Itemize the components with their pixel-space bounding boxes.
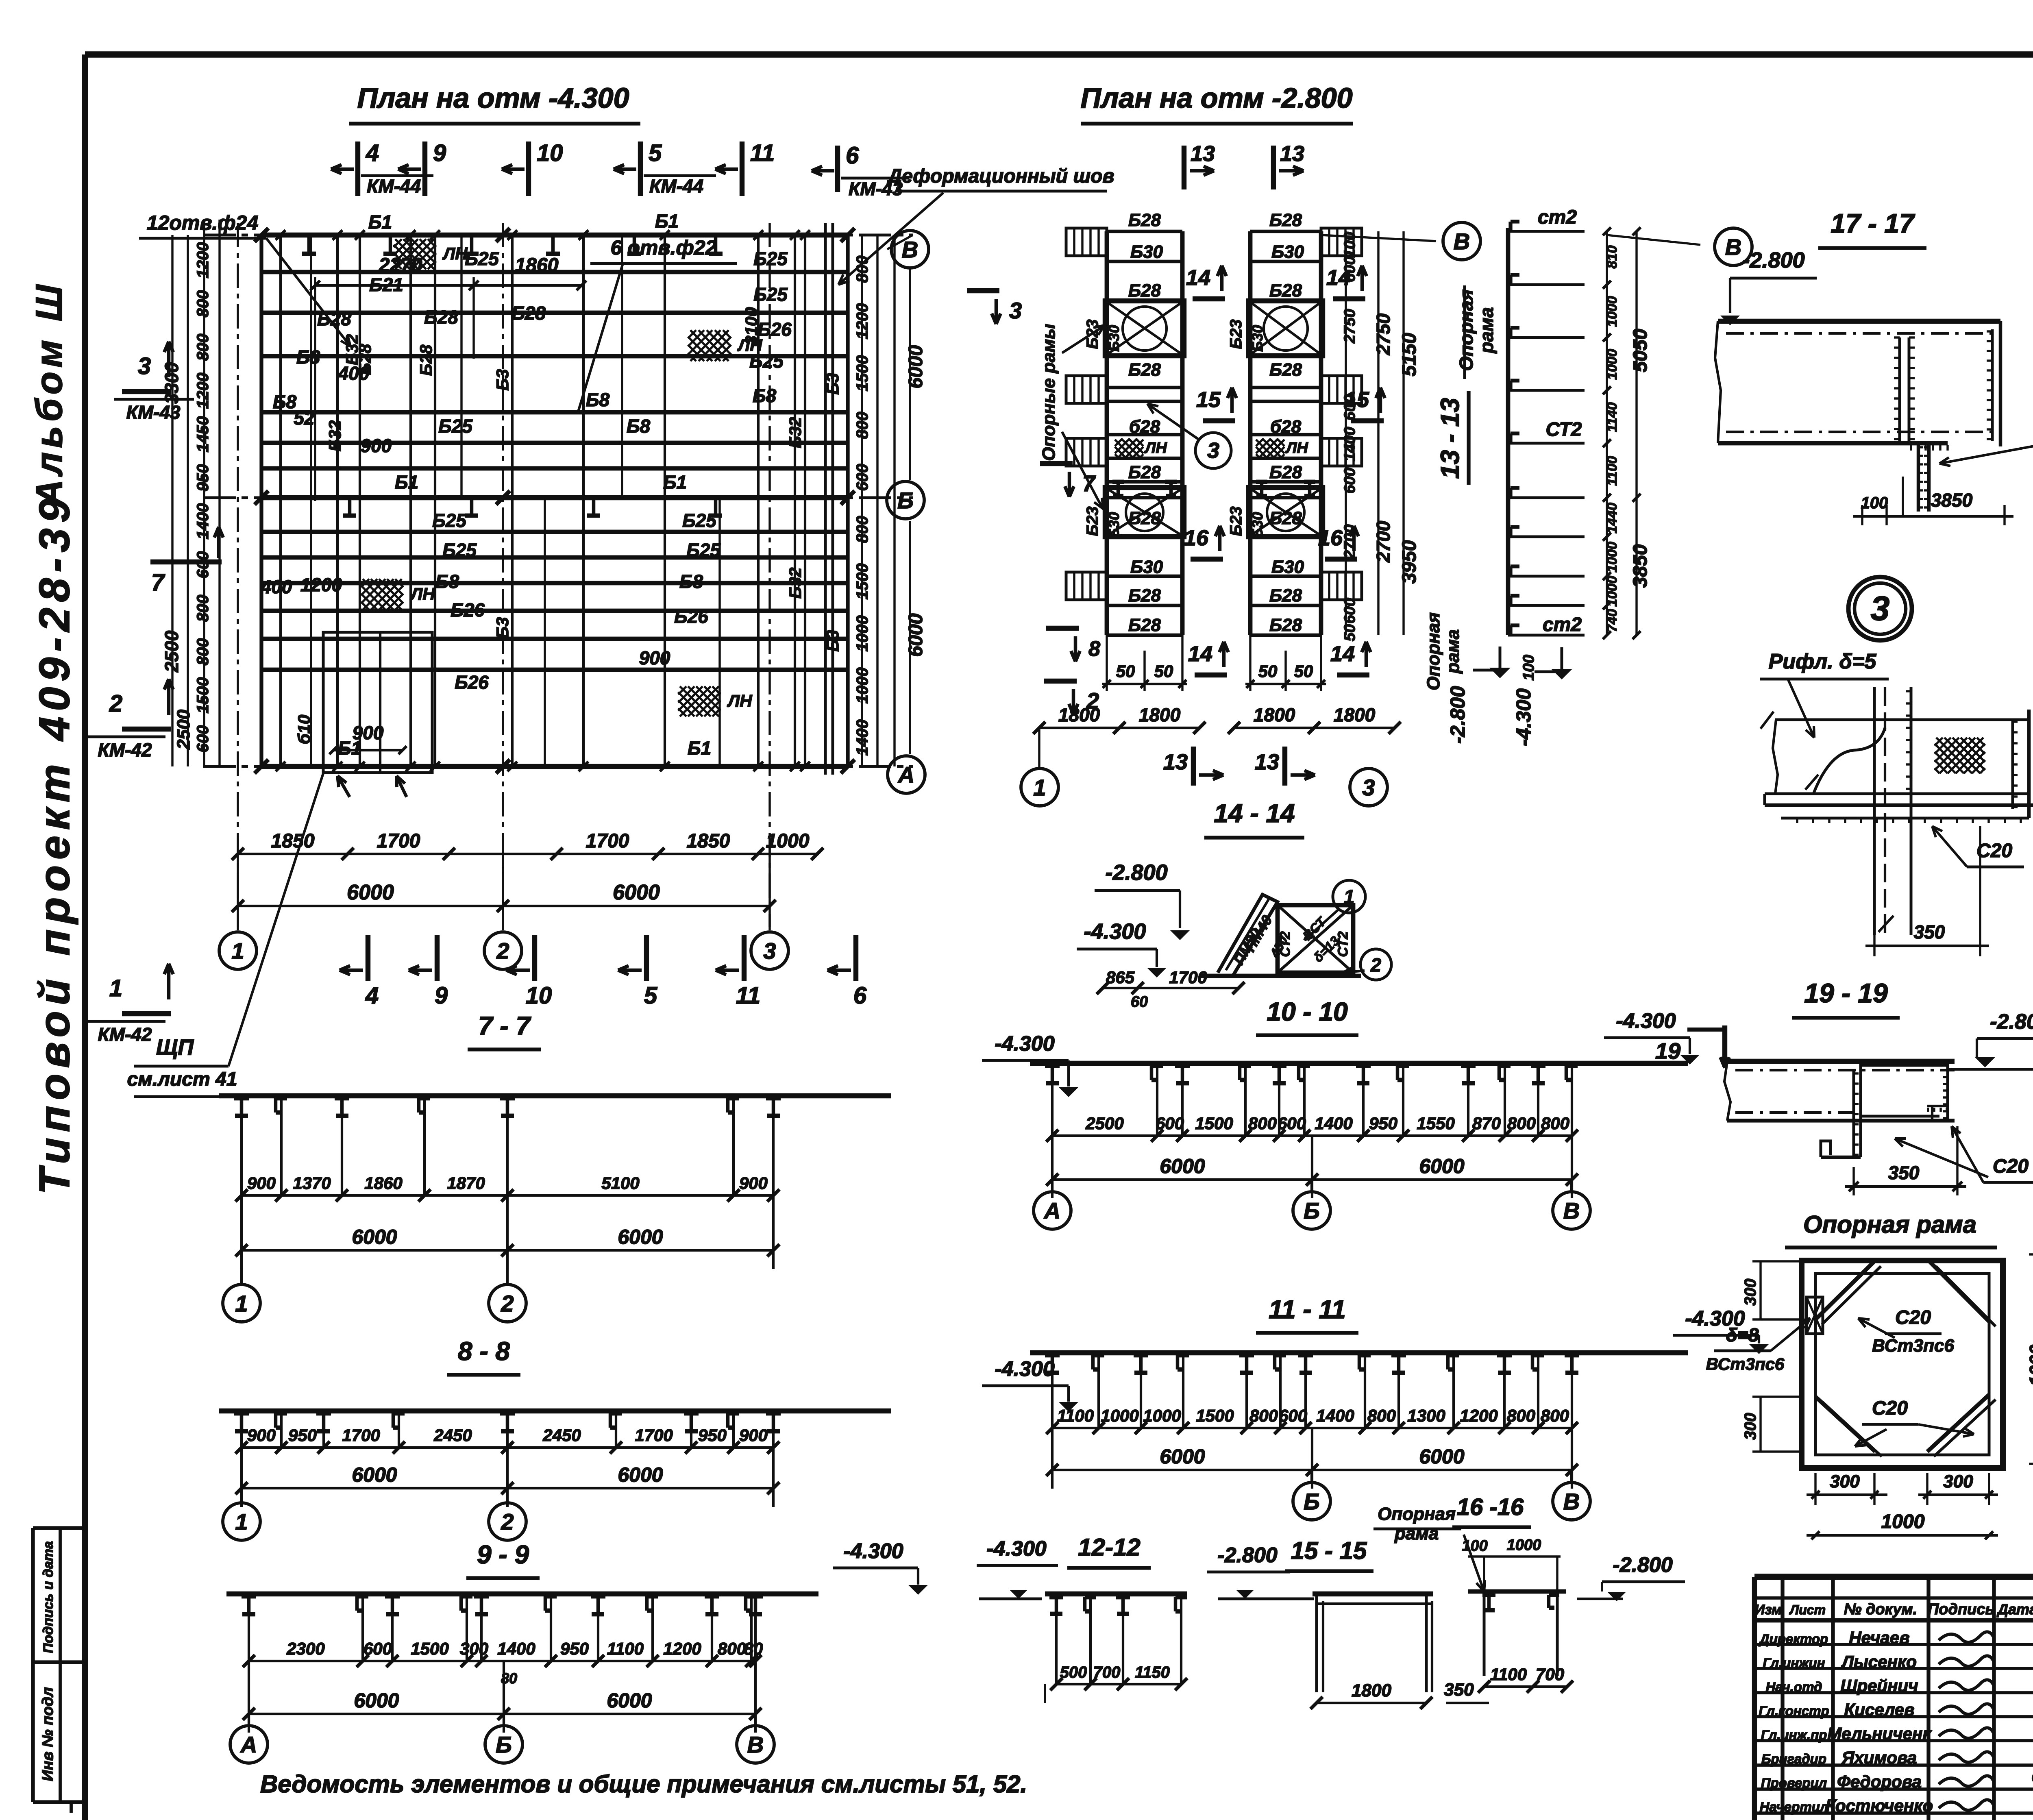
svg-text:ЛН: ЛН bbox=[1144, 440, 1167, 457]
svg-text:Киселев: Киселев bbox=[1844, 1700, 1914, 1719]
svg-text:Б1: Б1 bbox=[688, 738, 711, 759]
svg-text:1800: 1800 bbox=[1139, 704, 1181, 725]
svg-text:В: В bbox=[747, 1732, 764, 1757]
svg-text:б10: б10 bbox=[294, 715, 313, 745]
svg-text:Б28: Б28 bbox=[1128, 210, 1161, 230]
svg-text:800: 800 bbox=[194, 595, 212, 622]
svg-text:800: 800 bbox=[1249, 1406, 1278, 1425]
svg-text:3: 3 bbox=[1207, 438, 1219, 463]
svg-text:Подпись: Подпись bbox=[1928, 1601, 1994, 1618]
svg-text:КМ-44: КМ-44 bbox=[367, 176, 421, 197]
svg-text:10 - 10: 10 - 10 bbox=[1267, 997, 1347, 1026]
svg-text:Б3: Б3 bbox=[823, 630, 842, 651]
svg-text:Б26: Б26 bbox=[757, 319, 792, 340]
svg-text:Б23: Б23 bbox=[1084, 507, 1101, 536]
svg-text:б28: б28 bbox=[1270, 417, 1302, 437]
svg-text:Инв № подл: Инв № подл bbox=[39, 1687, 57, 1781]
svg-text:1850: 1850 bbox=[271, 830, 315, 852]
svg-text:Б30: Б30 bbox=[1271, 557, 1304, 577]
svg-text:950: 950 bbox=[560, 1639, 589, 1658]
svg-text:СТ2: СТ2 bbox=[1278, 931, 1293, 957]
svg-text:В: В bbox=[902, 237, 918, 262]
svg-text:Б8: Б8 bbox=[753, 385, 777, 406]
svg-text:3850: 3850 bbox=[1630, 544, 1651, 588]
svg-text:Гл.инжин: Гл.инжин bbox=[1763, 1655, 1825, 1670]
svg-text:Опорная: Опорная bbox=[1378, 1504, 1456, 1524]
svg-text:13 - 13: 13 - 13 bbox=[1435, 398, 1465, 479]
svg-text:-2.800: -2.800 bbox=[1446, 686, 1469, 744]
svg-text:КМ-44: КМ-44 bbox=[649, 176, 703, 197]
svg-text:1550: 1550 bbox=[1417, 1114, 1454, 1133]
svg-text:6000: 6000 bbox=[352, 1226, 397, 1248]
svg-text:6000: 6000 bbox=[352, 1463, 397, 1486]
svg-text:13: 13 bbox=[1163, 750, 1188, 774]
svg-text:В: В bbox=[1454, 229, 1470, 254]
svg-text:4: 4 bbox=[366, 140, 379, 166]
svg-text:-4.300: -4.300 bbox=[995, 1032, 1055, 1056]
svg-text:Б23: Б23 bbox=[1227, 320, 1245, 349]
svg-text:Б28: Б28 bbox=[1269, 586, 1302, 605]
svg-text:400: 400 bbox=[261, 576, 292, 597]
svg-text:С20: С20 bbox=[1993, 1156, 2029, 1177]
svg-text:600: 600 bbox=[364, 1639, 392, 1658]
svg-text:В: В bbox=[1725, 234, 1741, 260]
svg-text:Б26: Б26 bbox=[451, 599, 485, 620]
svg-text:3850: 3850 bbox=[1931, 490, 1973, 511]
svg-text:3: 3 bbox=[1009, 298, 1022, 323]
svg-text:1500: 1500 bbox=[853, 564, 871, 600]
svg-text:1000: 1000 bbox=[1604, 349, 1620, 380]
svg-text:1000: 1000 bbox=[1881, 1511, 1925, 1533]
svg-text:5050: 5050 bbox=[1630, 329, 1651, 372]
svg-text:Нечаев: Нечаев bbox=[1849, 1628, 1909, 1647]
svg-text:600: 600 bbox=[1341, 468, 1358, 493]
svg-text:11: 11 bbox=[736, 982, 760, 1009]
svg-text:ЛН: ЛН bbox=[442, 244, 468, 263]
svg-text:13: 13 bbox=[1280, 142, 1304, 166]
svg-text:А: А bbox=[1043, 1198, 1060, 1223]
svg-text:Б30: Б30 bbox=[1249, 325, 1266, 352]
svg-text:ст2: ст2 bbox=[1543, 614, 1582, 636]
svg-text:5: 5 bbox=[649, 140, 662, 166]
svg-text:1200: 1200 bbox=[853, 303, 871, 340]
svg-text:Типовой проект 409-28-39: Типовой проект 409-28-39 bbox=[30, 493, 78, 1194]
svg-text:1200: 1200 bbox=[194, 373, 212, 409]
svg-text:Б28: Б28 bbox=[424, 307, 458, 328]
svg-text:300: 300 bbox=[1943, 1472, 1973, 1491]
svg-text:6: 6 bbox=[853, 982, 867, 1009]
svg-text:900: 900 bbox=[353, 722, 384, 743]
svg-text:16 -16: 16 -16 bbox=[1457, 1494, 1524, 1520]
svg-text:Б25: Б25 bbox=[432, 510, 467, 531]
svg-text:600: 600 bbox=[1341, 598, 1358, 623]
svg-text:Шрейнич: Шрейнич bbox=[1840, 1676, 1918, 1695]
svg-text:900: 900 bbox=[247, 1173, 276, 1193]
svg-text:Б25: Б25 bbox=[442, 540, 477, 561]
svg-text:19 - 19: 19 - 19 bbox=[1804, 978, 1888, 1008]
svg-text:16: 16 bbox=[1184, 526, 1209, 550]
svg-text:100: 100 bbox=[1861, 494, 1888, 512]
svg-text:Изм: Изм bbox=[1755, 1602, 1782, 1618]
svg-text:950: 950 bbox=[288, 1426, 317, 1445]
svg-text:600: 600 bbox=[853, 464, 871, 491]
svg-text:2: 2 bbox=[501, 1509, 514, 1535]
svg-text:1400: 1400 bbox=[194, 503, 212, 540]
svg-text:6000: 6000 bbox=[618, 1226, 663, 1248]
svg-text:1700: 1700 bbox=[635, 1426, 673, 1445]
svg-text:13: 13 bbox=[1191, 142, 1215, 166]
svg-text:14: 14 bbox=[1188, 642, 1212, 666]
svg-text:Б25: Б25 bbox=[682, 510, 717, 531]
svg-text:52: 52 bbox=[294, 407, 315, 429]
svg-text:800: 800 bbox=[194, 638, 212, 666]
svg-text:Б28: Б28 bbox=[355, 344, 374, 375]
svg-text:810: 810 bbox=[1604, 246, 1620, 269]
svg-text:12-12: 12-12 bbox=[1078, 1534, 1140, 1561]
svg-text:Мельниченк: Мельниченк bbox=[1827, 1724, 1932, 1743]
svg-text:1: 1 bbox=[231, 938, 244, 964]
svg-text:6000: 6000 bbox=[1160, 1445, 1205, 1468]
svg-text:600: 600 bbox=[1341, 394, 1358, 420]
svg-text:Рифл. δ=5: Рифл. δ=5 bbox=[1769, 650, 1877, 673]
svg-text:-4.300: -4.300 bbox=[995, 1357, 1055, 1381]
svg-text:В: В bbox=[1563, 1198, 1580, 1223]
svg-text:800: 800 bbox=[1367, 1406, 1396, 1425]
svg-text:-4.300: -4.300 bbox=[843, 1539, 903, 1563]
svg-text:3: 3 bbox=[1362, 775, 1375, 800]
svg-text:15 - 15: 15 - 15 bbox=[1291, 1537, 1367, 1564]
svg-text:1100: 1100 bbox=[1057, 1406, 1094, 1425]
svg-text:1700: 1700 bbox=[377, 830, 420, 852]
svg-text:1800: 1800 bbox=[1352, 1681, 1391, 1700]
svg-text:1500: 1500 bbox=[1195, 1114, 1233, 1133]
svg-text:1400: 1400 bbox=[853, 720, 871, 756]
svg-text:60: 60 bbox=[1131, 993, 1148, 1010]
svg-text:1450: 1450 bbox=[194, 416, 212, 453]
svg-text:Б: Б bbox=[1304, 1489, 1320, 1514]
svg-text:-4.300: -4.300 bbox=[1084, 919, 1146, 944]
svg-text:рама: рама bbox=[1394, 1524, 1439, 1544]
svg-text:800: 800 bbox=[1541, 1114, 1569, 1133]
svg-text:16: 16 bbox=[1318, 526, 1343, 550]
svg-text:2300: 2300 bbox=[286, 1639, 324, 1658]
svg-text:для варианта выдачи бетон-: для варианта выдачи бетон- bbox=[2031, 1764, 2033, 1787]
svg-text:-4.300: -4.300 bbox=[1512, 688, 1535, 746]
svg-text:Б1: Б1 bbox=[655, 211, 679, 232]
svg-text:Б3: Б3 bbox=[493, 617, 512, 638]
svg-text:3: 3 bbox=[763, 938, 776, 964]
svg-text:700: 700 bbox=[1093, 1663, 1121, 1681]
svg-text:ЛН: ЛН bbox=[1285, 440, 1308, 457]
svg-text:Б8: Б8 bbox=[679, 571, 703, 592]
svg-text:1500: 1500 bbox=[194, 677, 212, 714]
svg-text:Лист: Лист bbox=[1789, 1602, 1826, 1617]
svg-text:2: 2 bbox=[109, 690, 122, 717]
svg-text:-4.300: -4.300 bbox=[986, 1537, 1047, 1561]
svg-text:С20: С20 bbox=[1895, 1307, 1931, 1328]
svg-text:50: 50 bbox=[1258, 662, 1278, 681]
svg-text:План на отм -2.800: План на отм -2.800 bbox=[1081, 82, 1353, 114]
svg-text:Б: Б bbox=[1304, 1198, 1320, 1223]
svg-text:6000: 6000 bbox=[905, 345, 927, 388]
svg-text:6000: 6000 bbox=[607, 1689, 652, 1712]
svg-text:14: 14 bbox=[1330, 642, 1355, 666]
svg-text:11: 11 bbox=[750, 140, 775, 166]
svg-text:Б8: Б8 bbox=[627, 416, 651, 437]
svg-text:1000: 1000 bbox=[853, 616, 871, 652]
svg-text:Б30: Б30 bbox=[1249, 512, 1266, 539]
svg-text:10: 10 bbox=[526, 982, 552, 1009]
svg-text:6000: 6000 bbox=[613, 881, 660, 904]
svg-text:600: 600 bbox=[194, 725, 212, 753]
svg-text:рама: рама bbox=[1443, 629, 1463, 674]
svg-text:12отв.ф24: 12отв.ф24 bbox=[147, 211, 259, 234]
svg-text:Б28: Б28 bbox=[416, 344, 435, 376]
svg-text:1200: 1200 bbox=[663, 1639, 701, 1658]
svg-text:19: 19 bbox=[1655, 1038, 1680, 1064]
svg-text:1000: 1000 bbox=[1604, 542, 1620, 573]
svg-text:Б25: Б25 bbox=[686, 540, 721, 561]
svg-text:1000: 1000 bbox=[766, 830, 810, 852]
svg-text:800: 800 bbox=[718, 1639, 746, 1658]
svg-text:1200: 1200 bbox=[1460, 1406, 1498, 1425]
svg-text:865: 865 bbox=[1106, 968, 1135, 987]
svg-text:11 - 11: 11 - 11 bbox=[1269, 1295, 1346, 1324]
svg-text:Подпись и дата: Подпись и дата bbox=[41, 1541, 56, 1653]
svg-text:800: 800 bbox=[1541, 1406, 1569, 1425]
svg-text:Б1: Б1 bbox=[663, 472, 687, 493]
svg-text:ЛН: ЛН bbox=[409, 584, 435, 603]
svg-text:Опорная рама: Опорная рама bbox=[1803, 1211, 1976, 1238]
svg-text:Гл.констр: Гл.констр bbox=[1759, 1703, 1829, 1718]
svg-text:Б28: Б28 bbox=[1269, 615, 1302, 635]
svg-text:2500: 2500 bbox=[161, 630, 182, 673]
svg-text:Б30: Б30 bbox=[1130, 557, 1163, 577]
svg-text:Б1: Б1 bbox=[368, 211, 392, 233]
svg-text:Дата: Дата bbox=[1996, 1601, 2033, 1618]
svg-text:600: 600 bbox=[1278, 1114, 1306, 1133]
svg-text:1870: 1870 bbox=[447, 1173, 485, 1193]
svg-text:Бригадир: Бригадир bbox=[1761, 1751, 1826, 1766]
svg-text:800: 800 bbox=[1507, 1406, 1535, 1425]
svg-text:1000: 1000 bbox=[1507, 1537, 1541, 1554]
svg-text:2: 2 bbox=[501, 1291, 514, 1316]
svg-text:Б28: Б28 bbox=[1269, 210, 1302, 230]
svg-text:-2.800: -2.800 bbox=[1613, 1553, 1673, 1577]
svg-text:870: 870 bbox=[1472, 1114, 1501, 1133]
svg-text:Б1: Б1 bbox=[395, 472, 418, 493]
svg-text:1850: 1850 bbox=[687, 830, 730, 852]
svg-text:3300: 3300 bbox=[161, 362, 182, 404]
svg-text:Б28: Б28 bbox=[512, 303, 546, 324]
svg-text:ст2: ст2 bbox=[1538, 207, 1577, 228]
svg-text:14 - 14: 14 - 14 bbox=[1214, 799, 1295, 828]
svg-text:1440: 1440 bbox=[1604, 503, 1620, 533]
svg-text:50: 50 bbox=[1294, 662, 1313, 681]
svg-text:900: 900 bbox=[361, 435, 392, 456]
svg-text:А: А bbox=[897, 762, 914, 788]
svg-text:1500: 1500 bbox=[411, 1639, 448, 1658]
svg-text:Б32: Б32 bbox=[786, 417, 805, 448]
svg-text:Б30: Б30 bbox=[1130, 242, 1163, 262]
svg-text:С20: С20 bbox=[1872, 1398, 1908, 1419]
svg-text:6000: 6000 bbox=[1160, 1155, 1205, 1178]
svg-text:1400: 1400 bbox=[1315, 1114, 1352, 1133]
svg-text:1000: 1000 bbox=[1143, 1406, 1181, 1425]
svg-text:1000: 1000 bbox=[1604, 576, 1620, 607]
svg-text:Б8: Б8 bbox=[435, 571, 459, 592]
svg-text:Б26: Б26 bbox=[674, 606, 708, 627]
svg-text:1: 1 bbox=[1033, 775, 1046, 800]
svg-text:1000: 1000 bbox=[1101, 1406, 1138, 1425]
svg-text:4: 4 bbox=[365, 982, 379, 1009]
svg-text:14: 14 bbox=[1186, 266, 1210, 290]
svg-text:-4.300: -4.300 bbox=[1616, 1009, 1676, 1033]
svg-text:Б26: Б26 bbox=[455, 672, 489, 693]
svg-text:Опорная: Опорная bbox=[1424, 612, 1443, 690]
svg-text:Опорные рамы: Опорные рамы bbox=[1039, 324, 1059, 461]
svg-text:Б: Б bbox=[897, 488, 914, 513]
svg-text:см.лист 41: см.лист 41 bbox=[127, 1069, 237, 1090]
svg-text:600: 600 bbox=[1341, 256, 1358, 282]
svg-text:1700: 1700 bbox=[342, 1426, 380, 1445]
svg-text:КМ-42: КМ-42 bbox=[98, 1024, 152, 1045]
svg-text:5: 5 bbox=[644, 982, 657, 1009]
svg-text:950: 950 bbox=[698, 1426, 727, 1445]
svg-text:2270: 2270 bbox=[379, 255, 422, 276]
svg-text:2450: 2450 bbox=[542, 1426, 581, 1445]
svg-text:2700: 2700 bbox=[1341, 525, 1358, 559]
svg-text:Проверил: Проверил bbox=[1761, 1775, 1827, 1790]
svg-text:700: 700 bbox=[1536, 1665, 1564, 1684]
svg-text:1200: 1200 bbox=[300, 574, 342, 595]
svg-text:6000: 6000 bbox=[347, 881, 394, 904]
svg-text:1400: 1400 bbox=[1316, 1406, 1354, 1425]
svg-text:9 - 9: 9 - 9 bbox=[477, 1540, 529, 1569]
svg-text:6: 6 bbox=[846, 142, 859, 169]
svg-text:ВСт3пс6: ВСт3пс6 bbox=[1706, 1354, 1785, 1374]
svg-text:Б25: Б25 bbox=[438, 416, 473, 437]
svg-text:Яхимова: Яхимова bbox=[1841, 1748, 1917, 1767]
svg-text:Б3: Б3 bbox=[493, 369, 512, 390]
svg-text:15: 15 bbox=[1196, 388, 1221, 412]
svg-text:Нач.отд: Нач.отд bbox=[1766, 1679, 1822, 1694]
svg-text:-4.300: -4.300 bbox=[1685, 1307, 1745, 1330]
svg-text:2500: 2500 bbox=[1085, 1114, 1123, 1133]
svg-text:План на отм -4.300: План на отм -4.300 bbox=[357, 82, 629, 114]
svg-text:8: 8 bbox=[1088, 637, 1100, 661]
svg-text:Опорная: Опорная bbox=[1456, 290, 1477, 371]
svg-text:Ведомость элементов и общие пр: Ведомость элементов и общие примечания с… bbox=[260, 1770, 1027, 1798]
svg-text:В: В bbox=[1563, 1489, 1580, 1514]
svg-text:5100: 5100 bbox=[601, 1173, 639, 1193]
svg-text:КМ-42: КМ-42 bbox=[98, 739, 152, 760]
svg-text:350: 350 bbox=[1888, 1162, 1920, 1183]
svg-text:1500: 1500 bbox=[1196, 1406, 1234, 1425]
svg-text:Б28: Б28 bbox=[1128, 281, 1161, 300]
svg-text:Лысенко: Лысенко bbox=[1841, 1652, 1917, 1671]
svg-text:Директор: Директор bbox=[1759, 1631, 1828, 1646]
svg-text:1500: 1500 bbox=[853, 355, 871, 392]
svg-text:7: 7 bbox=[151, 569, 165, 596]
svg-text:6000: 6000 bbox=[1419, 1445, 1464, 1468]
svg-text:800: 800 bbox=[1507, 1114, 1536, 1133]
svg-text:100: 100 bbox=[1520, 655, 1537, 680]
svg-text:9: 9 bbox=[435, 982, 448, 1009]
svg-text:100: 100 bbox=[1462, 1537, 1487, 1554]
svg-text:ВСт3пс6: ВСт3пс6 bbox=[1872, 1336, 1954, 1356]
svg-text:СТ2: СТ2 bbox=[1546, 419, 1582, 440]
svg-text:6000: 6000 bbox=[1419, 1155, 1464, 1178]
svg-text:10: 10 bbox=[537, 140, 563, 166]
svg-text:1100: 1100 bbox=[1604, 456, 1620, 485]
svg-text:-2.800: -2.800 bbox=[1217, 1544, 1278, 1567]
svg-text:600: 600 bbox=[194, 551, 212, 579]
svg-text:350: 350 bbox=[1914, 921, 1945, 943]
svg-text:Б3: Б3 bbox=[823, 373, 842, 394]
svg-text:3950: 3950 bbox=[1399, 540, 1420, 583]
svg-text:Б28: Б28 bbox=[1269, 360, 1302, 380]
svg-text:900: 900 bbox=[639, 647, 670, 668]
svg-text:900: 900 bbox=[739, 1173, 768, 1193]
svg-text:300: 300 bbox=[1741, 1279, 1759, 1306]
svg-text:5150: 5150 bbox=[1399, 333, 1420, 376]
svg-text:Б30: Б30 bbox=[1106, 325, 1122, 352]
svg-text:1700: 1700 bbox=[586, 830, 629, 852]
svg-text:Федорова: Федорова bbox=[1837, 1772, 1922, 1791]
svg-text:740: 740 bbox=[1604, 609, 1620, 632]
svg-text:600: 600 bbox=[1156, 1114, 1184, 1133]
svg-text:Б23: Б23 bbox=[1227, 507, 1245, 536]
svg-text:1300: 1300 bbox=[1407, 1406, 1445, 1425]
svg-text:3: 3 bbox=[138, 353, 151, 379]
svg-text:-2.800: -2.800 bbox=[1105, 860, 1167, 885]
svg-text:800: 800 bbox=[1248, 1114, 1277, 1133]
svg-text:1100: 1100 bbox=[1490, 1665, 1527, 1684]
svg-text:рама: рама bbox=[1476, 307, 1497, 354]
svg-text:3: 3 bbox=[1871, 589, 1890, 627]
svg-text:Б28: Б28 bbox=[1128, 360, 1161, 380]
svg-text:Б32: Б32 bbox=[325, 420, 344, 451]
svg-text:Б30: Б30 bbox=[1271, 242, 1304, 262]
svg-text:Б25: Б25 bbox=[753, 248, 788, 269]
svg-text:2: 2 bbox=[1086, 688, 1099, 714]
svg-text:1000: 1000 bbox=[1604, 296, 1620, 327]
svg-text:80: 80 bbox=[744, 1639, 763, 1658]
svg-text:1700: 1700 bbox=[1169, 968, 1207, 987]
svg-text:1200: 1200 bbox=[194, 242, 212, 279]
svg-text:Б28: Б28 bbox=[1128, 586, 1161, 605]
svg-text:2750: 2750 bbox=[1341, 309, 1358, 344]
svg-text:2700: 2700 bbox=[1373, 520, 1394, 563]
svg-text:Б30: Б30 bbox=[1106, 512, 1122, 539]
svg-text:2450: 2450 bbox=[433, 1426, 472, 1445]
svg-text:1800: 1800 bbox=[1254, 704, 1295, 725]
svg-text:Б28: Б28 bbox=[1269, 508, 1302, 528]
svg-text:Начертил: Начертил bbox=[1760, 1799, 1828, 1814]
svg-text:Б28: Б28 bbox=[1269, 281, 1302, 300]
svg-text:800: 800 bbox=[194, 334, 212, 361]
svg-text:Б8: Б8 bbox=[586, 389, 610, 410]
svg-text:350: 350 bbox=[1444, 1680, 1474, 1700]
svg-text:300: 300 bbox=[1741, 1413, 1759, 1440]
svg-text:13: 13 bbox=[1255, 750, 1279, 774]
svg-text:8 - 8: 8 - 8 bbox=[458, 1337, 510, 1366]
svg-text:3100: 3100 bbox=[742, 307, 761, 345]
svg-text:Б8: Б8 bbox=[296, 346, 320, 368]
svg-text:1140: 1140 bbox=[1604, 402, 1620, 432]
svg-text:2: 2 bbox=[496, 938, 509, 964]
